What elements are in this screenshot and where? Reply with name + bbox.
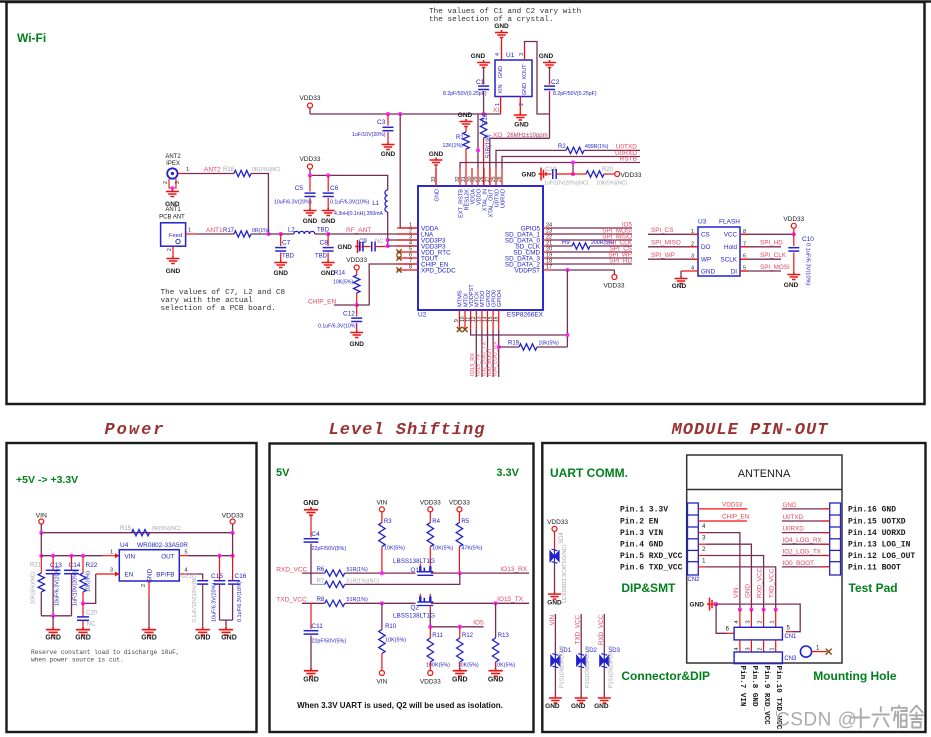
svg-text:CN1: CN1	[784, 634, 797, 640]
connector CN3	[734, 652, 782, 664]
ground (C15/C16)	[219, 627, 233, 635]
svg-text:LBSS138LT1G: LBSS138LT1G	[393, 558, 435, 565]
svg-text:GND: GND	[141, 635, 157, 642]
ground (C21)	[196, 627, 210, 635]
diode SD4	[554, 531, 556, 550]
svg-text:C7: C7	[282, 240, 291, 247]
wire ANT2 to R18	[186, 173, 234, 175]
svg-text:DIP&SMT: DIP&SMT	[621, 581, 676, 595]
svg-text:R18: R18	[223, 167, 235, 173]
svg-text:ANT2: ANT2	[165, 154, 181, 160]
wire R7 row	[345, 573, 460, 584]
resistor R1	[465, 127, 467, 132]
svg-text:GND: GND	[221, 635, 237, 642]
svg-text:VIN: VIN	[376, 500, 387, 507]
svg-text:VCC: VCC	[724, 232, 738, 239]
svg-text:GND: GND	[321, 218, 336, 225]
capacitor C1	[483, 68, 485, 85]
svg-text:VDD33: VDD33	[547, 519, 568, 526]
resistor R12	[459, 627, 461, 638]
svg-text:SPI_CLK: SPI_CLK	[760, 252, 787, 259]
svg-text:GND: GND	[471, 53, 486, 60]
svg-text:3: 3	[745, 620, 751, 623]
capacitor C2	[549, 68, 551, 85]
svg-text:GND: GND	[147, 569, 154, 583]
svg-text:0.1uF/6.3V(10%): 0.1uF/6.3V(10%)	[805, 243, 811, 285]
svg-text:4.3nH(0.1nH),350mA: 4.3nH(0.1nH),350mA	[334, 211, 384, 217]
svg-text:GND: GND	[303, 677, 319, 684]
svg-text:C8: C8	[320, 240, 329, 247]
svg-text:CN2: CN2	[688, 577, 701, 583]
node C6	[326, 173, 330, 177]
capacitor C8	[327, 234, 329, 246]
ground (above U1 pin4)	[495, 30, 508, 38]
svg-text:XOUT: XOUT	[522, 64, 528, 80]
svg-text:GND: GND	[494, 23, 509, 30]
ground (ANT1)	[167, 256, 180, 264]
wire top rail	[41, 524, 232, 533]
node R18 branch	[266, 232, 270, 236]
resistor R14	[356, 270, 358, 275]
svg-text:R3: R3	[384, 519, 392, 525]
svg-text:U0RXD: U0RXD	[500, 189, 506, 208]
wire SD3	[603, 614, 605, 654]
svg-text:ANT1: ANT1	[165, 207, 181, 213]
svg-text:R20: R20	[602, 167, 614, 173]
svg-text:UART COMM.: UART COMM.	[550, 466, 628, 480]
wire net SPI_MOSI	[551, 233, 632, 235]
svg-text:28: 28	[497, 176, 503, 182]
svg-text:RF_ANT: RF_ANT	[346, 227, 371, 234]
svg-text:SCLK: SCLK	[721, 257, 738, 264]
svg-text:Pin.4 GND: Pin.4 GND	[620, 541, 663, 550]
svg-text:U4: U4	[120, 542, 129, 549]
node R19 on GPIO4	[497, 345, 501, 349]
svg-text:3.3V: 3.3V	[496, 467, 519, 479]
capacitor NC	[372, 242, 375, 252]
svg-text:VDD33: VDD33	[722, 502, 743, 509]
svg-text:GND: GND	[498, 66, 504, 78]
svg-text:SPI_MOSI: SPI_MOSI	[760, 264, 790, 271]
svg-text:1uF/10V(20%): 1uF/10V(20%)	[73, 571, 79, 606]
svg-text:16: 16	[494, 316, 500, 322]
U2 right pin 20 SD_CMD	[543, 251, 551, 253]
node C7	[279, 232, 283, 236]
svg-text:10K(5%): 10K(5%)	[432, 546, 453, 552]
U2 top pin 28 U0RXD	[501, 168, 503, 186]
svg-text:4: 4	[734, 620, 740, 623]
svg-text:VIN: VIN	[376, 679, 387, 686]
svg-text:GND: GND	[338, 244, 353, 251]
svg-text:2: 2	[758, 620, 764, 623]
svg-text:C10: C10	[802, 236, 814, 243]
ground (C11)	[304, 668, 318, 676]
wire test pad IO0_BOOT	[782, 566, 830, 568]
Wi-Fi section frame	[7, 2, 925, 404]
svg-text:XIN: XIN	[498, 84, 504, 93]
svg-text:PCB ANT: PCB ANT	[159, 215, 185, 221]
capacitor C11	[310, 603, 312, 629]
capacitor C10	[793, 234, 795, 246]
U2 bottom pin 16 GPIO4	[498, 310, 500, 330]
wire net SPI_CS	[551, 251, 632, 253]
wire U4 GND pin	[148, 581, 150, 598]
svg-text:3: 3	[110, 568, 113, 574]
Power panel frame	[7, 443, 257, 732]
svg-text:U0TXD: U0TXD	[783, 514, 804, 521]
U2 top pin 30 VDDA	[471, 168, 473, 186]
svg-text:DO: DO	[701, 244, 711, 251]
svg-text:U0RXD: U0RXD	[783, 526, 805, 533]
svg-text:12K(1%): 12K(1%)	[443, 143, 463, 149]
svg-text:10K(5%): 10K(5%)	[86, 571, 92, 592]
U2 bottom pin 12 MTCK	[475, 310, 477, 330]
svg-text:10K(5%): 10K(5%)	[333, 280, 353, 286]
svg-text:R2: R2	[558, 144, 566, 150]
no-connect X pins 5,6,8	[396, 249, 401, 254]
wire RXD_VCC row	[302, 572, 325, 574]
svg-text:LBSS138LT1G: LBSS138LT1G	[393, 613, 435, 620]
connector CN1	[734, 627, 782, 640]
svg-text:1: 1	[186, 167, 189, 173]
svg-text:200R(5%): 200R(5%)	[591, 240, 615, 246]
wire CHIP_EN	[334, 304, 357, 306]
svg-text:VIN: VIN	[125, 553, 136, 560]
svg-text:Wi-Fi: Wi-Fi	[17, 31, 46, 45]
svg-text:P1S1CN23PD5V8: P1S1CN23PD5V8	[608, 645, 614, 688]
wire bottom IO stubs	[475, 330, 477, 377]
U2 bottom pin 11 VDDPST	[470, 310, 472, 330]
svg-text:when power source is cut.: when power source is cut.	[31, 657, 124, 664]
ground (U4)	[142, 627, 156, 635]
svg-text:C19: C19	[545, 167, 557, 173]
svg-text:GND: GND	[45, 635, 61, 642]
svg-text:R12: R12	[462, 633, 474, 639]
svg-text:R8: R8	[317, 597, 325, 603]
svg-text:8.2pF/50V(0.25pF): 8.2pF/50V(0.25pF)	[443, 91, 487, 97]
svg-text:SPI_HD: SPI_HD	[609, 258, 632, 265]
svg-text:4: 4	[734, 647, 740, 650]
svg-text:TBD: TBD	[282, 254, 295, 260]
wire to U2 pin7	[357, 264, 418, 305]
svg-text:RXD_VCC: RXD_VCC	[757, 567, 764, 598]
resistor R3	[381, 512, 383, 523]
wire VDD33 row	[698, 508, 747, 510]
svg-text:C21: C21	[181, 574, 193, 580]
power terminal VDD33 (flash)	[791, 223, 796, 228]
svg-text:R7: R7	[317, 578, 325, 584]
module outline	[687, 455, 842, 663]
U2 right pin 23 SD_DATA_1	[543, 233, 551, 235]
svg-text:R19: R19	[508, 341, 520, 347]
wire net SPI_WP	[551, 257, 632, 259]
U2 right pin 24 GPIO5	[543, 227, 551, 229]
wire test pad U0TXD	[782, 520, 830, 522]
svg-text:499R(1%): 499R(1%)	[585, 144, 609, 150]
svg-text:Pin.15 UOTXD: Pin.15 UOTXD	[848, 518, 906, 527]
svg-text:47K(5%): 47K(5%)	[461, 546, 482, 552]
svg-text:GND: GND	[303, 500, 319, 507]
svg-text:C1: C1	[476, 79, 485, 86]
svg-text:GND: GND	[195, 635, 211, 642]
svg-text:XPD_DCDC: XPD_DCDC	[421, 267, 456, 274]
wire VDDO feed from rail	[477, 114, 479, 168]
wire RSTB row	[460, 163, 640, 169]
wire TXD_VCC row	[302, 602, 325, 604]
U2 bottom pin 15 GPIO0	[492, 310, 494, 330]
svg-text:LESD8D3.3CAT5G(NC): LESD8D3.3CAT5G(NC)	[562, 544, 568, 603]
svg-text:1uF/10V(20%): 1uF/10V(20%)	[352, 132, 386, 138]
wire test pad GND	[782, 508, 830, 510]
ground (SD3)	[598, 696, 611, 704]
ground (SD1)	[549, 696, 562, 704]
svg-text:ESP8266EX: ESP8266EX	[507, 312, 544, 319]
node junctions on y=114	[386, 112, 390, 116]
wire C9 to NC cap	[363, 246, 371, 248]
svg-text:51R(1%): 51R(1%)	[347, 597, 368, 603]
antenna divider line	[687, 489, 842, 491]
ground (C8)	[322, 260, 335, 268]
svg-text:MODULE PIN-OUT: MODULE PIN-OUT	[671, 421, 829, 440]
svg-text:10K(5%): 10K(5%)	[458, 663, 479, 669]
svg-text:Feed: Feed	[169, 233, 182, 239]
ground (SD4)	[548, 592, 561, 600]
svg-text:TXD_VCC: TXD_VCC	[769, 568, 776, 598]
svg-text:R14: R14	[334, 271, 346, 277]
svg-text:R17: R17	[223, 228, 235, 234]
wire U1 pin1 (XIN)	[500, 97, 502, 115]
svg-text:ANT1: ANT1	[206, 227, 223, 234]
capacitor C7	[280, 234, 282, 246]
svg-text:TXD_VCC: TXD_VCC	[276, 597, 307, 604]
svg-text:0.1uF/6.3V(10%): 0.1uF/6.3V(10%)	[237, 581, 243, 622]
svg-text:GND: GND	[547, 600, 562, 607]
wire rail2 to U4 VIN	[41, 555, 102, 557]
wire L2 to C8 node	[315, 233, 328, 235]
svg-text:U0RXD: U0RXD	[615, 150, 637, 157]
svg-text:IO4_LOG_RX: IO4_LOG_RX	[783, 537, 823, 544]
svg-text:R21: R21	[30, 563, 42, 569]
U2 left pin 5 VDD_RTC	[397, 251, 418, 253]
wire U0TXD row	[496, 150, 566, 168]
svg-text:VDD33: VDD33	[604, 283, 625, 290]
svg-text:VDD33: VDD33	[449, 500, 470, 507]
wire net SPI_HD	[551, 263, 632, 265]
svg-text:R4: R4	[432, 519, 440, 525]
power terminal VDD33 (R11)	[428, 671, 433, 676]
ground (C7)	[274, 260, 287, 268]
svg-text:10K(5%): 10K(5%)	[384, 546, 405, 552]
U2 top pin 33 GND	[435, 168, 437, 186]
svg-text:Pin.5 RXD_VCC: Pin.5 RXD_VCC	[620, 552, 683, 561]
resistor R4	[429, 512, 431, 523]
svg-text:C15: C15	[211, 573, 223, 580]
wire VDDA feed down to U2 pin1	[400, 114, 418, 228]
U2 bottom pin 13 MTDO	[481, 310, 483, 330]
flash U3 body	[698, 227, 740, 276]
wire ANT1 to R17	[197, 233, 234, 235]
wire CN1 pin stubs red	[739, 610, 741, 628]
svg-text:R10: R10	[385, 624, 397, 630]
svg-text:GND: GND	[539, 53, 554, 60]
svg-text:WP: WP	[701, 257, 711, 264]
ground (C20)	[76, 627, 90, 635]
svg-text:8: 8	[409, 265, 412, 271]
capacitor C6	[327, 175, 329, 191]
svg-text:IO5: IO5	[473, 620, 484, 627]
svg-text:GND: GND	[701, 268, 715, 275]
capacitor C9	[358, 246, 360, 248]
wire RSTB to C19/R20 node	[572, 163, 574, 175]
svg-text:Reserve constant load to disch: Reserve constant load to discharge 10uF,	[31, 649, 180, 656]
wire IPEX pin1	[178, 173, 186, 175]
ground (C10)	[787, 272, 800, 280]
svg-text:10K(5%): 10K(5%)	[539, 341, 559, 347]
wire to L2	[281, 233, 294, 235]
svg-text:CHIP_EN: CHIP_EN	[308, 299, 336, 306]
svg-text:8.2pF/50V(0.25pF): 8.2pF/50V(0.25pF)	[553, 91, 597, 97]
svg-text:2: 2	[167, 248, 173, 251]
wire VDD33 rail to XI (horizontal y=114)	[310, 113, 501, 115]
U2 right pin 22 SD_DATA_0	[543, 239, 551, 241]
svg-text:0R(5%)(NC): 0R(5%)(NC)	[152, 526, 181, 532]
svg-text:51R(1%): 51R(1%)	[347, 567, 368, 573]
wire flash GND pin4	[681, 270, 698, 272]
junction dots on CN1 feed wires	[738, 608, 742, 612]
svg-text:When 3.3V UART is used, Q2 wil: When 3.3V UART is used, Q2 will be used …	[297, 701, 503, 710]
wire BP/FB to C21	[179, 573, 188, 575]
U2 right pin 21 SD_CLK	[543, 245, 551, 247]
svg-text:IPEX: IPEX	[166, 161, 180, 167]
svg-text:22pF/50V(5%): 22pF/50V(5%)	[311, 546, 346, 552]
svg-text:2: 2	[163, 181, 169, 184]
U2 left pin 6 TOUT	[397, 257, 418, 259]
svg-text:GPIO4: GPIO4	[497, 290, 503, 307]
wire CHIP_EN row	[698, 520, 747, 522]
svg-text:Pin.12 LOG_OUT: Pin.12 LOG_OUT	[848, 552, 915, 561]
svg-text:Mounting Hole: Mounting Hole	[813, 669, 897, 683]
ground (SD2)	[575, 696, 588, 704]
svg-text:DI: DI	[731, 268, 738, 275]
wire VDDPST vertical	[566, 270, 568, 347]
wire OUT to VDD33	[188, 555, 233, 557]
svg-text:GND: GND	[273, 270, 288, 277]
svg-text:vary with the actual: vary with the actual	[161, 297, 254, 305]
wire U1 pin3 loop to XO node	[524, 44, 526, 60]
svg-text:ANTENNA: ANTENNA	[738, 468, 791, 480]
svg-text:1: 1	[110, 550, 113, 556]
svg-text:the selection of a crystal.: the selection of a crystal.	[429, 16, 554, 24]
svg-text:VIN: VIN	[733, 587, 740, 598]
svg-text:Test Pad: Test Pad	[849, 581, 898, 595]
svg-text:SPI_HD: SPI_HD	[760, 240, 783, 247]
ground (C6)	[322, 208, 335, 216]
svg-text:Pin.9 RXD_VCC: Pin.9 RXD_VCC	[762, 666, 770, 726]
svg-text:selection of a PCB board.: selection of a PCB board.	[161, 305, 276, 313]
svg-text:10uF/6.3V(20%): 10uF/6.3V(20%)	[212, 583, 218, 622]
svg-text:CHIP_EN: CHIP_EN	[722, 514, 750, 521]
capacitor C5	[309, 175, 311, 191]
page top border line	[0, 0, 931, 3]
capacitor C4	[310, 515, 312, 537]
svg-text:1: 1	[770, 647, 776, 650]
no-connect X pins 9,10	[457, 327, 462, 332]
svg-text:22pF/50V(5%): 22pF/50V(5%)	[311, 639, 346, 645]
svg-text:IO15_TX: IO15_TX	[497, 596, 524, 603]
svg-text:GND: GND	[75, 635, 91, 642]
resistor R10	[381, 603, 383, 629]
svg-text:Connector&DIP: Connector&DIP	[621, 669, 710, 683]
svg-text:IO0_BOOT: IO0_BOOT	[783, 560, 815, 567]
svg-text:10K(5%)(NC): 10K(5%)(NC)	[596, 181, 627, 187]
svg-text:3: 3	[175, 181, 181, 184]
svg-text:0.1uF/10V(10%)(NC): 0.1uF/10V(10%)(NC)	[192, 573, 198, 622]
svg-text:C2: C2	[551, 79, 560, 86]
U2 top pin 27 XTAL_OUT	[489, 168, 491, 186]
node C5	[308, 173, 312, 177]
power terminal VDD33 (R20)	[615, 172, 620, 177]
svg-text:P1S1CN23PD5V8: P1S1CN23PD5V8	[585, 645, 591, 688]
ground (C3)	[382, 142, 395, 150]
svg-text:Pin.16 GND: Pin.16 GND	[848, 505, 896, 514]
power terminal VDD33 (pin17)	[613, 270, 615, 275]
wire net SPI_MISO	[551, 239, 632, 241]
svg-text:VDDPST: VDDPST	[514, 267, 540, 274]
wire VDD33 rail to L1	[310, 169, 388, 190]
node XI	[482, 112, 486, 116]
svg-text:BP/FB: BP/FB	[156, 572, 174, 579]
svg-text:10K(5%)(NC): 10K(5%)(NC)	[31, 571, 37, 604]
capacitor C19 (NC)	[541, 173, 552, 175]
wire XTAL_OUT down	[489, 138, 491, 168]
U2 bottom pin 9 MTMS	[458, 310, 460, 330]
ground (C12)	[350, 330, 363, 338]
op-amp U2 ESP8266EX body	[418, 186, 543, 310]
svg-text:C16: C16	[235, 573, 247, 580]
svg-text:VDD33: VDD33	[346, 257, 367, 264]
svg-text:VDD33: VDD33	[420, 500, 441, 507]
svg-text:C4: C4	[311, 531, 320, 538]
U2 top pin 26 XTAL_IN	[483, 168, 485, 186]
wire test pad U0RXD	[782, 532, 830, 534]
svg-text:ANT2: ANT2	[204, 167, 221, 174]
svg-text:0.1uF/6.3V(10%): 0.1uF/6.3V(10%)	[318, 324, 357, 330]
wire GND to CN1 pin6	[716, 604, 727, 633]
resistor R5	[458, 512, 460, 523]
ground (bottom rail)	[52, 616, 54, 627]
svg-text:R6: R6	[317, 567, 325, 573]
svg-text:Pin.14 UORXD: Pin.14 UORXD	[848, 529, 906, 538]
svg-text:0.1uF/6.3V(10%): 0.1uF/6.3V(10%)	[330, 200, 369, 206]
U2 right pin 17 VDDPST	[543, 269, 551, 271]
svg-text:Pin.1 3.3V: Pin.1 3.3V	[620, 505, 668, 514]
svg-text:Level Shifting: Level Shifting	[329, 421, 486, 440]
svg-text:R11: R11	[432, 633, 443, 639]
watermark CJK glyphs	[853, 706, 924, 728]
svg-text:Pin.2 EN: Pin.2 EN	[620, 518, 659, 527]
svg-text:GND: GND	[452, 677, 468, 684]
svg-text:The values of C1 and C2 vary w: The values of C1 and C2 vary with	[429, 8, 581, 16]
svg-text:CN3: CN3	[784, 656, 797, 662]
svg-text:Pin.3 VIN: Pin.3 VIN	[620, 529, 663, 538]
svg-text:Pin.7 VIN: Pin.7 VIN	[738, 666, 746, 707]
resistor R13	[495, 603, 497, 638]
svg-text:0R(1%)(NC): 0R(1%)(NC)	[252, 167, 281, 173]
svg-text:R5: R5	[461, 519, 469, 525]
svg-text:GND: GND	[434, 189, 440, 201]
IPEX shield pins 2,3	[168, 179, 170, 186]
wire flash VCC to VDD33	[740, 233, 794, 235]
